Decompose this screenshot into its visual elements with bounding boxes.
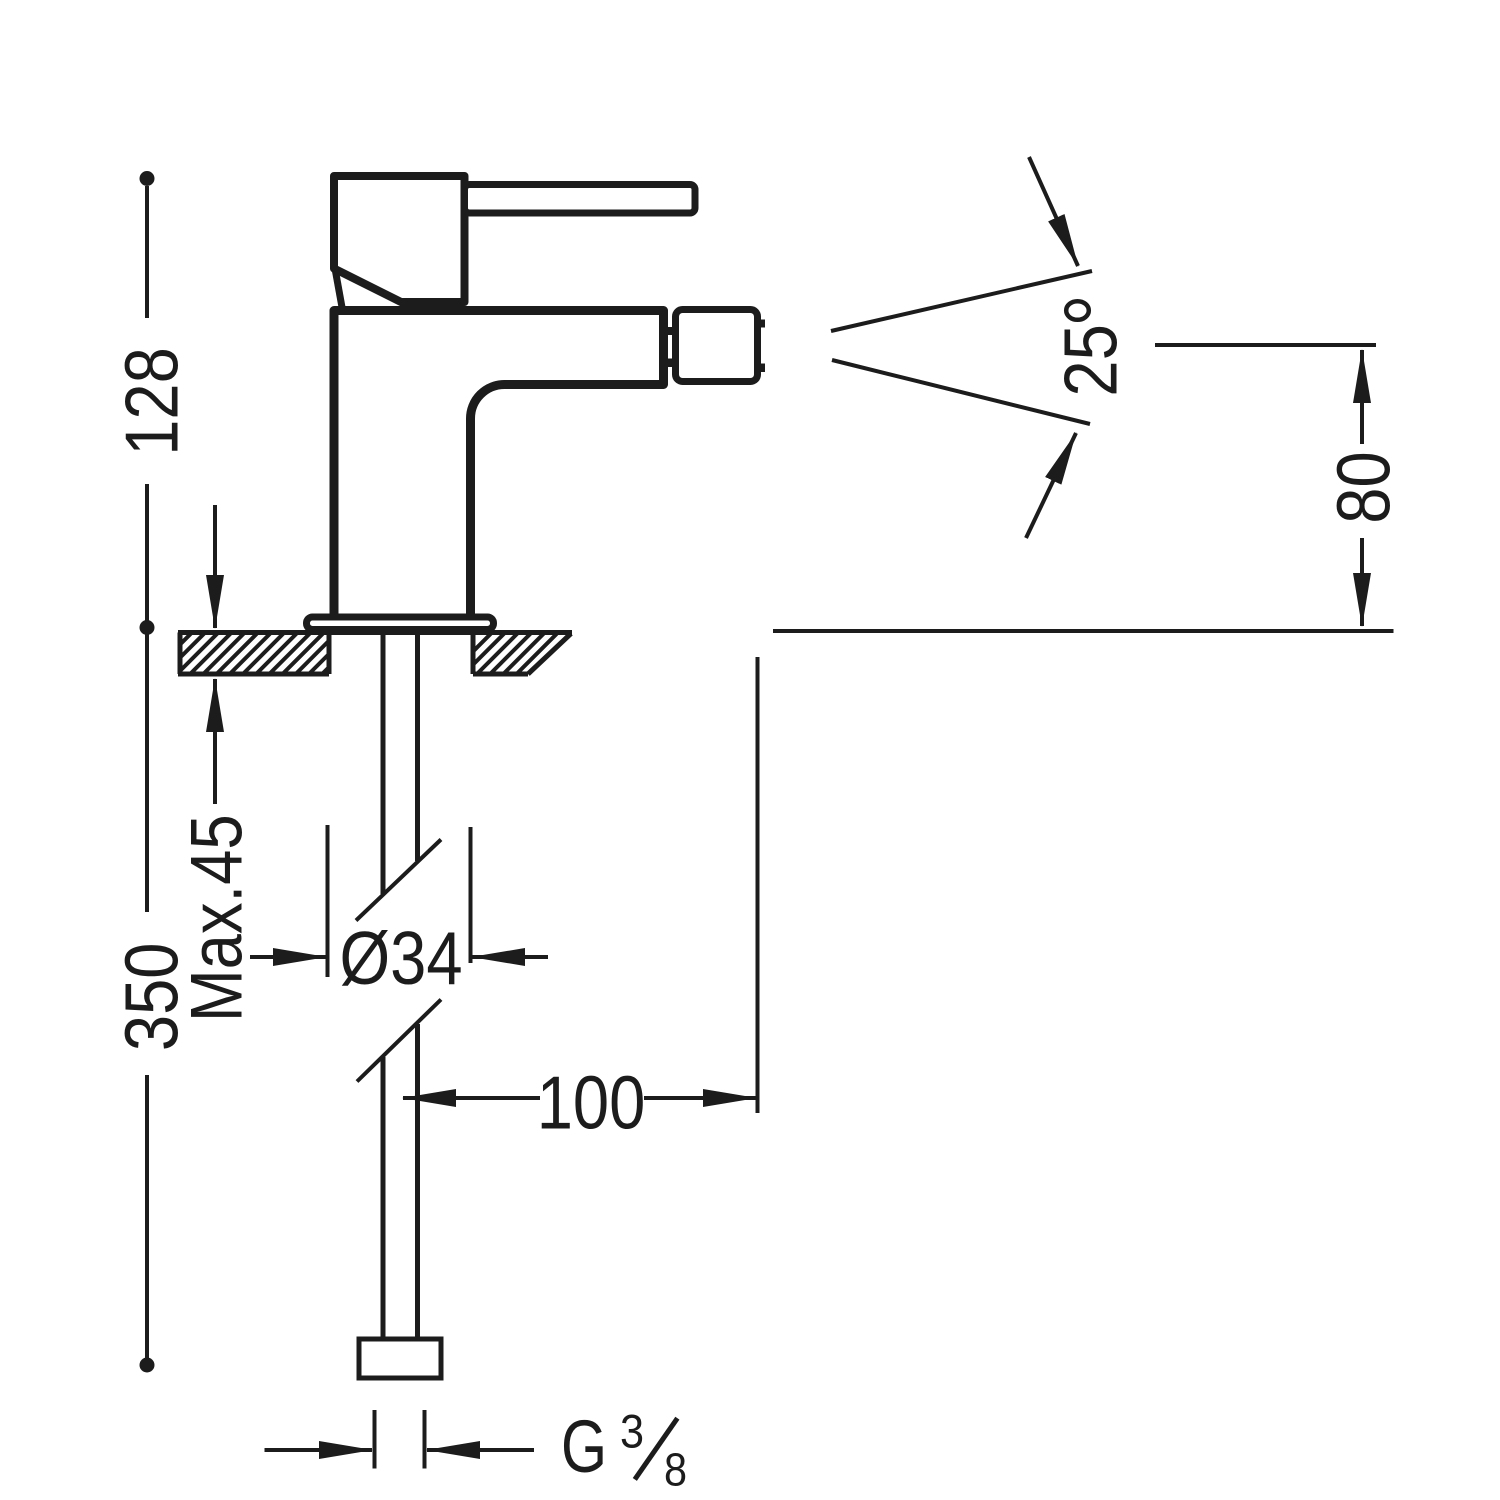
connection nut bbox=[359, 1339, 441, 1378]
spout-aerator bridge lower bbox=[659, 359, 677, 368]
svg-text:Ø34: Ø34 bbox=[339, 916, 462, 1000]
svg-text:8: 8 bbox=[664, 1444, 687, 1496]
svg-text:100: 100 bbox=[537, 1060, 646, 1144]
aerator right nub lower bbox=[757, 364, 765, 373]
dim 350 bottom node dot bbox=[140, 1358, 155, 1373]
svg-text:3: 3 bbox=[620, 1405, 644, 1458]
dim 128 upper node dot bbox=[140, 171, 155, 186]
spout-aerator bridge upper bbox=[659, 327, 677, 335]
svg-text:128: 128 bbox=[109, 347, 193, 456]
angle 25 upper arrow bbox=[1029, 157, 1078, 266]
handle cartridge block bbox=[334, 176, 465, 302]
countertop level reference line right bbox=[773, 629, 1394, 633]
dim G38 right tick bbox=[423, 1410, 427, 1469]
svg-text:80: 80 bbox=[1321, 451, 1405, 523]
degree ring of 25 label bbox=[1066, 301, 1089, 320]
supply pipe upper right line bbox=[415, 633, 420, 861]
dim 80 down arrow bbox=[1360, 538, 1364, 626]
countertop right block left edge bbox=[471, 633, 476, 675]
dim 80 up arrow bbox=[1360, 350, 1364, 444]
dim 128 line upper segment bbox=[145, 186, 149, 318]
hatching right countertop block bbox=[450, 634, 583, 675]
dim Max.45 up arrow bbox=[213, 679, 217, 804]
countertop top surface line bbox=[178, 630, 572, 635]
supply pipe lower left line bbox=[381, 1057, 386, 1337]
angle 25 lower arrow bbox=[1026, 433, 1076, 538]
countertop right block bottom edge bbox=[473, 672, 528, 677]
dim 128/350 middle node dot bbox=[140, 620, 155, 635]
dim G38 right arrow bbox=[427, 1448, 534, 1452]
dim G38 left arrow bbox=[265, 1448, 373, 1452]
dim 350 line lower segment bbox=[145, 1075, 149, 1358]
dim 128 line lower segment bbox=[145, 484, 149, 621]
countertop left block left edge bbox=[178, 633, 183, 675]
dim O34 right arrow bbox=[472, 955, 548, 959]
label fraction slash of G3/8 bbox=[635, 1418, 678, 1479]
svg-text:25: 25 bbox=[1048, 324, 1132, 396]
dim O34 left extension line bbox=[326, 825, 330, 977]
dim 80 top reference line bbox=[1155, 343, 1376, 347]
dim 100 right extension line bbox=[756, 657, 760, 1113]
dim 350 line upper segment bbox=[145, 634, 149, 912]
lever bar bbox=[465, 185, 696, 214]
dim O34 left arrow bbox=[250, 955, 326, 959]
svg-text:Max.45: Max.45 bbox=[176, 814, 257, 1022]
faucet body column and spout outline bbox=[334, 311, 664, 618]
handle lever tip line bbox=[335, 269, 343, 311]
countertop left block bottom edge bbox=[178, 672, 329, 677]
dim Max.45 down arrow bbox=[213, 505, 217, 628]
dim 100 right arrow bbox=[644, 1096, 756, 1100]
base flange bbox=[307, 617, 494, 630]
supply pipe upper left line bbox=[381, 633, 386, 894]
hatching left countertop block bbox=[150, 634, 363, 675]
angle 25 lower ray bbox=[832, 360, 1090, 424]
dim 100 left arrow bbox=[403, 1096, 540, 1100]
angle 25 upper ray bbox=[831, 271, 1092, 331]
supply pipe lower right line bbox=[415, 1024, 420, 1337]
aerator block bbox=[676, 310, 758, 382]
dim O34 right extension line bbox=[469, 827, 473, 963]
aerator right nub upper bbox=[757, 320, 765, 328]
countertop right block slanted end bbox=[528, 634, 571, 675]
pipe break upper diagonal bbox=[356, 840, 441, 921]
dim G38 left tick bbox=[373, 1410, 377, 1469]
pipe break lower diagonal bbox=[357, 1000, 441, 1082]
svg-text:G: G bbox=[561, 1406, 607, 1489]
countertop left block right edge bbox=[327, 633, 332, 675]
